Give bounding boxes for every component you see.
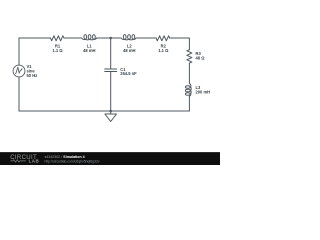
ground triangle bbox=[105, 114, 117, 122]
svg-text:1.1 Ω: 1.1 Ω bbox=[158, 48, 169, 53]
wire top-left horizontal bbox=[19, 37, 51, 39]
inductor L1 bbox=[82, 38, 97, 40]
wire L3 to bottom-right corner bbox=[188, 96, 190, 111]
resistor R1 bbox=[51, 36, 65, 41]
inductor L2 bbox=[121, 38, 136, 40]
svg-text:48 mH: 48 mH bbox=[123, 48, 135, 53]
svg-text:LAB: LAB bbox=[29, 159, 40, 164]
V1 waveform glyph bbox=[16, 67, 22, 74]
wire R2 to top-right corner down to R3 bbox=[170, 38, 190, 50]
inductor L3 bbox=[189, 83, 191, 96]
svg-text:48 mH: 48 mH bbox=[83, 48, 95, 53]
voltage source V1 bbox=[13, 65, 25, 77]
svg-text:200 mH: 200 mH bbox=[196, 89, 211, 94]
logo resistor zigzag bbox=[11, 160, 26, 162]
resistor R3 bbox=[187, 50, 192, 64]
capacitor C1 plates bbox=[105, 69, 117, 72]
footer bar bbox=[0, 152, 220, 165]
wire left side bottom (V1 to corner) bbox=[18, 77, 20, 111]
capacitor C1 bottom lead bbox=[110, 72, 112, 112]
svg-text:48 Ω: 48 Ω bbox=[196, 56, 206, 61]
capacitor C1 top lead bbox=[110, 38, 112, 69]
svg-text:1.1 Ω: 1.1 Ω bbox=[52, 48, 63, 53]
wire L2 to R2 bbox=[136, 37, 156, 39]
wire L1 to junction to L2 bbox=[97, 37, 121, 39]
ground stub bbox=[110, 111, 112, 114]
wire R3 to L3 bbox=[188, 63, 190, 83]
resistor R2 bbox=[156, 36, 170, 41]
junction node at C1 top bbox=[109, 37, 112, 40]
svg-text:http://circuitlab.com/c6qbv5hq: http://circuitlab.com/c6qbv5hqf6g32v bbox=[45, 159, 100, 163]
junction node at C1 bottom bbox=[109, 110, 112, 113]
svg-text:264.5 nF: 264.5 nF bbox=[120, 71, 137, 76]
wire bottom horizontal bbox=[19, 110, 189, 112]
wire left side top (corner to V1) bbox=[18, 38, 20, 65]
wire R1 to L1 bbox=[64, 37, 82, 39]
footer bar top highlight bbox=[0, 152, 220, 153]
svg-text:50 Hz: 50 Hz bbox=[27, 73, 38, 78]
V1 arrowhead bbox=[21, 68, 23, 70]
